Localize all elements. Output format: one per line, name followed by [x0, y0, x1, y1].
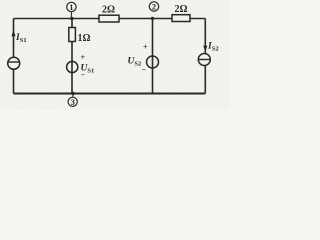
- wire right branch: [204, 19, 206, 94]
- wire bottom: [14, 93, 206, 95]
- node 2 (circled label): [149, 2, 158, 12]
- resistor R 1ohm (vertical, middle branch): [69, 28, 91, 45]
- label US2 with polarity: [128, 43, 149, 75]
- wire middle branch node1 to node3: [71, 19, 73, 94]
- arrow IS1 (up): [11, 30, 15, 36]
- label US1 with polarity: [81, 53, 95, 80]
- node 3 (circled label): [68, 97, 77, 107]
- resistor R 2ohm (right horizontal, top): [172, 4, 190, 22]
- node 1 stem: [70, 11, 72, 18]
- voltage source US1 (middle branch circle): [67, 61, 78, 72]
- resistor R 2ohm (left horizontal, top): [99, 5, 119, 23]
- voltage source US2 (node2 branch circle): [147, 56, 159, 68]
- current source IS2 (right branch circle): [198, 54, 210, 66]
- arrow IS2 (down): [203, 46, 207, 52]
- junction node3 dot: [71, 92, 74, 95]
- junction node1 dot: [70, 17, 73, 20]
- scan texture overlay: [0, 0, 1, 1]
- node 1 (circled label): [67, 2, 76, 12]
- wire left branch: [13, 19, 15, 94]
- wire branch node2 down: [152, 19, 154, 94]
- wire top: [14, 18, 206, 20]
- current source IS1 (left branch circle): [8, 57, 20, 69]
- node 3 stem: [72, 94, 74, 98]
- junction node2 dot: [151, 17, 154, 20]
